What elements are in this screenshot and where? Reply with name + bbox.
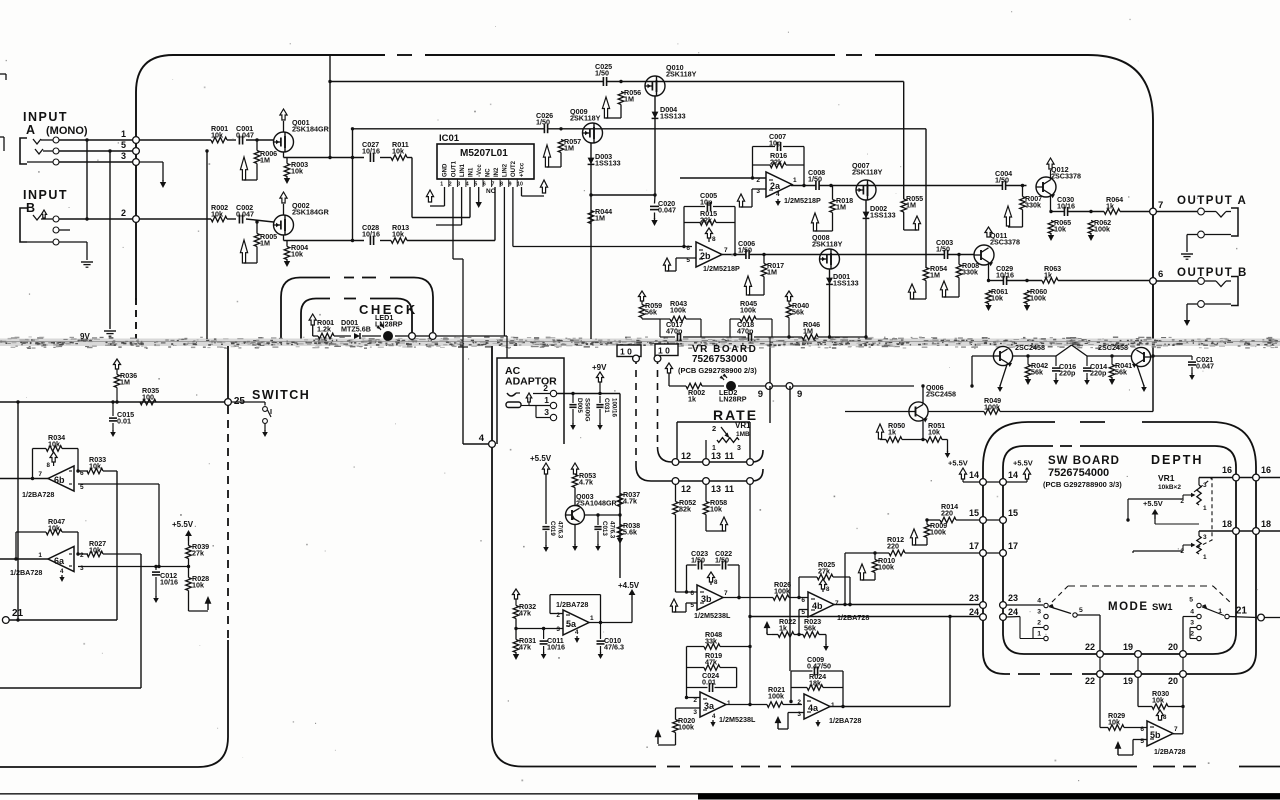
wire Q012 emitter to output line (1050, 194, 1052, 211)
wire depth pot upper wiring (1183, 494, 1188, 496)
power arrow IC01 pin1 (426, 190, 433, 202)
wire top board outline left edge dashed lower part (135, 298, 137, 339)
wire C026 rail drop to R054 (925, 129, 927, 268)
ground C021 (1191, 373, 1193, 375)
wire input A sleeve to pin 3 (59, 161, 132, 163)
node pin 21 (1258, 614, 1265, 621)
wire Q006 collector riser (922, 386, 924, 404)
svg-text:15: 15 (1008, 508, 1018, 518)
wire 5a output (588, 622, 633, 624)
wire R059 bottom (641, 318, 643, 320)
svg-text:M5207L01: M5207L01 (460, 148, 508, 159)
arrow 3b pin8 bias (707, 572, 714, 582)
wire 3a output (726, 704, 767, 706)
svg-text:VR1: VR1 (735, 421, 751, 430)
ground R004 (286, 259, 288, 261)
svg-text:1/2BA728: 1/2BA728 (1154, 749, 1186, 756)
node pin 12 upper (672, 459, 679, 466)
capacitor C024 (708, 683, 710, 692)
wire R005 top to gate line (256, 222, 258, 234)
capacitor C011 (543, 629, 545, 640)
capacitor C015 (112, 402, 114, 416)
transistor Q009 (583, 123, 603, 143)
svg-text:100k: 100k (1094, 225, 1110, 234)
wire bottom page black bar (698, 794, 1280, 800)
resistor R022 (778, 632, 794, 638)
wire LED2 line (669, 385, 686, 387)
node pin 23 right (1000, 602, 1007, 609)
resistor R049 (984, 409, 1000, 415)
arrow return R020 solid (675, 733, 677, 746)
svg-text:16: 16 (1261, 465, 1271, 475)
diode D003 (588, 158, 595, 165)
node pin 15 right (1000, 517, 1007, 524)
resistor R013 (391, 238, 407, 244)
svg-text:220: 220 (941, 509, 953, 518)
svg-text:6: 6 (483, 181, 486, 187)
resistor R003 (284, 164, 290, 177)
wire Q001 source down (283, 152, 285, 158)
svg-text:1: 1 (121, 129, 126, 139)
node pin 14 left (980, 479, 987, 486)
svg-text:100k: 100k (670, 306, 686, 315)
svg-text:10/16: 10/16 (547, 643, 565, 652)
ground IC01 pin5 (478, 200, 480, 202)
wire pin19 drop (1137, 657, 1139, 670)
arrow R022 bias solid (764, 621, 771, 628)
wire AC adaptor box (497, 358, 564, 444)
svg-text:1/2BA728: 1/2BA728 (556, 600, 588, 609)
svg-text:IN1: IN1 (468, 167, 474, 177)
wire 4a pin3 return (788, 712, 804, 714)
node pin 15 left (980, 517, 987, 524)
node pin 11 lower (747, 478, 754, 485)
wire pair crossing peak (1056, 345, 1072, 356)
svg-text:17: 17 (969, 541, 979, 551)
resistor R042 (1025, 365, 1031, 378)
svg-text:6: 6 (686, 245, 690, 252)
ground C013 (597, 544, 599, 546)
diode D001 (826, 278, 833, 285)
svg-text:3: 3 (1203, 534, 1207, 541)
capacitor C002 (238, 215, 240, 224)
svg-text:1/50: 1/50 (536, 118, 550, 127)
svg-text:1 0: 1 0 (658, 346, 670, 356)
svg-text:5: 5 (474, 181, 477, 187)
arrow 6b pin8 bias (50, 452, 57, 462)
ground C014 (1086, 378, 1088, 380)
wire Q002 source down and right (283, 235, 285, 241)
svg-text:6b: 6b (54, 475, 65, 485)
svg-text:1/50: 1/50 (691, 556, 705, 565)
capacitor C017 box (660, 318, 670, 320)
jack output A (1156, 211, 1197, 213)
svg-text:0.047: 0.047 (236, 210, 254, 219)
wire R024 branch (791, 687, 807, 689)
wire SW1a contact 2 and 1 links (1033, 627, 1044, 629)
svg-text:100k: 100k (774, 587, 790, 596)
node pin 19 upper (1135, 651, 1142, 658)
transistor Q001 (274, 132, 294, 152)
node pin 9 right (786, 383, 793, 390)
node AC pin 3 (550, 414, 556, 420)
resistor R025 (817, 574, 833, 580)
transistor Q008 (820, 249, 840, 269)
wire pin17 line (845, 552, 889, 554)
svg-text:10k: 10k (991, 294, 1003, 303)
wire row337 to Q007 drop (772, 336, 802, 338)
arrow check bias (309, 314, 316, 325)
transistor Q two SC2458 right (1131, 347, 1150, 366)
wire input B tip to pin 2 (59, 218, 132, 220)
resistor R015 (700, 220, 716, 226)
wire 6a pin3 line (78, 566, 189, 568)
svg-text:(MONO): (MONO) (46, 125, 88, 137)
svg-text:INPUT: INPUT (23, 110, 68, 124)
arrow return R010 (874, 573, 876, 581)
wire pin21 line (9, 619, 117, 621)
svg-text:5: 5 (1079, 607, 1083, 614)
ground input B sleeve (81, 261, 93, 263)
svg-text:NC: NC (486, 188, 496, 195)
svg-text:2: 2 (80, 552, 84, 559)
wire SW1b to pin21 (1229, 617, 1257, 618)
capacitor C004 (1001, 181, 1003, 190)
svg-text:MODE: MODE (1108, 601, 1149, 613)
svg-text:1k: 1k (1044, 271, 1052, 280)
resistor R027 (87, 551, 103, 557)
node pin 1 (133, 137, 140, 144)
capacitor C019 (542, 526, 549, 528)
arrow return R009 (926, 538, 928, 546)
svg-text:1SS133: 1SS133 (833, 279, 859, 288)
arrow return R056 (620, 105, 622, 119)
resistor R039 (186, 546, 192, 559)
svg-text:10k: 10k (89, 546, 101, 555)
arrow return R006 (256, 164, 258, 181)
resistor R063 (1042, 278, 1058, 284)
capacitor C001 (238, 136, 240, 145)
resistor R033 (87, 468, 103, 474)
jack AC adaptor plug (507, 393, 516, 396)
svg-text:(PCB G292788900 2/3): (PCB G292788900 2/3) (678, 366, 757, 375)
svg-text:IN2: IN2 (494, 167, 500, 177)
ground C016 (1055, 378, 1057, 380)
transistor Q007 (856, 180, 876, 200)
wire IC01 pin1 GND return (444, 187, 446, 206)
resistor R035 (140, 399, 156, 405)
ground C020 (654, 218, 656, 220)
wire 2a inverting input line (680, 177, 766, 179)
svg-text:100k: 100k (678, 723, 694, 732)
svg-text:7: 7 (1158, 200, 1163, 211)
node check connector outer (429, 333, 436, 340)
wire vertical from switch line (17, 402, 19, 620)
svg-text:11: 11 (724, 484, 734, 494)
svg-text:100k: 100k (984, 403, 1000, 412)
wire Q003 base line to C013 (597, 515, 599, 528)
svg-text:1/50: 1/50 (595, 69, 609, 78)
wire 2a output line (791, 185, 816, 187)
svg-text:4: 4 (776, 191, 780, 198)
resistor R029 (1108, 725, 1124, 731)
svg-text:2SK184GR: 2SK184GR (292, 208, 330, 217)
ground 3a pin4 (712, 720, 714, 722)
svg-text:22k: 22k (700, 216, 712, 225)
svg-text:+5.5V: +5.5V (948, 459, 968, 468)
svg-text:+9V: +9V (592, 363, 607, 372)
resistor R064 (1104, 209, 1120, 215)
wire R040 bottom (788, 318, 790, 338)
capacitor C017 symbol (677, 333, 679, 341)
svg-text:8: 8 (1163, 714, 1167, 721)
svg-text:DEPTH: DEPTH (1151, 453, 1203, 467)
wire R007 top (1022, 186, 1024, 197)
ground R003 (286, 176, 288, 178)
svg-text:2SK184GR: 2SK184GR (292, 125, 330, 134)
op-amp U3b (697, 585, 723, 610)
resistor R056 (618, 92, 624, 105)
node pin 6 (1150, 278, 1157, 285)
wire depth pot lower wiring (1183, 544, 1188, 546)
svg-text:+4.5V: +4.5V (618, 581, 640, 590)
svg-text:47/6.3: 47/6.3 (609, 521, 616, 539)
wire IC01 pin3 stub (461, 187, 463, 225)
wire R045 branch crossing tear (769, 337, 771, 348)
arrow R040 bias (785, 291, 792, 301)
svg-text:12: 12 (681, 451, 691, 461)
svg-text:7526754000: 7526754000 (1048, 467, 1109, 479)
svg-text:27k: 27k (192, 549, 204, 558)
resistor R023 (803, 632, 819, 638)
svg-text:4.7k: 4.7k (623, 497, 637, 506)
wire C026 line (353, 128, 545, 130)
node pin 20 lower (1180, 671, 1187, 678)
op-amp U2b (696, 242, 722, 267)
node pin 22 upper (1097, 651, 1104, 658)
svg-text:2: 2 (1037, 620, 1041, 627)
resistor R020 (673, 720, 679, 733)
ground R042 (1027, 377, 1029, 379)
node pin 23 left (980, 602, 987, 609)
wire R030 line (1138, 706, 1152, 708)
resistor R018 (830, 200, 836, 213)
svg-text:10p: 10p (700, 198, 713, 207)
wire OUT1 net crossing tear to pin 4 (462, 339, 464, 347)
svg-text:10kB×2: 10kB×2 (1158, 484, 1181, 491)
resistor R053 (572, 475, 578, 488)
node pin 3 (133, 159, 140, 166)
node pin 22 lower (1097, 671, 1104, 678)
svg-text:33k: 33k (705, 637, 717, 646)
wire CHECK outer enclosure (281, 278, 330, 341)
node connector 10 right (655, 344, 678, 356)
svg-text:47/6.3: 47/6.3 (604, 643, 624, 652)
resistor R001 (211, 137, 227, 143)
wire R039 bottom (188, 559, 190, 567)
wire vertical from top edge to Q001 source node (329, 55, 331, 158)
wire vertical linking C027 and C028 lines (352, 129, 354, 241)
svg-text:2SA1048GR: 2SA1048GR (576, 499, 618, 508)
svg-text:0.47/50: 0.47/50 (807, 662, 831, 671)
svg-text:10k: 10k (89, 462, 101, 471)
ground R060 (1026, 303, 1028, 305)
potentiometer VR1 depth lower (1197, 536, 1201, 554)
svg-text:13: 13 (711, 484, 721, 494)
svg-text:10/16: 10/16 (362, 147, 380, 156)
capacitor C006 (745, 250, 747, 259)
arrow return R007 (1022, 210, 1024, 228)
svg-text:1k: 1k (779, 624, 787, 633)
svg-text:INPUT: INPUT (23, 188, 68, 202)
svg-text:1M: 1M (260, 156, 270, 165)
svg-text:2: 2 (712, 424, 716, 433)
node pin 18 right (1253, 528, 1260, 535)
transistor Q002 (274, 215, 294, 235)
svg-text:4: 4 (479, 433, 485, 444)
op-amp IC01 body (437, 144, 534, 179)
power arrow IC01 pin10 (540, 180, 547, 193)
resistor R038 (617, 525, 623, 538)
svg-text:11: 11 (724, 451, 734, 461)
svg-text:3: 3 (457, 181, 460, 187)
svg-text:10: 10 (517, 181, 523, 187)
node pin 2 (133, 216, 140, 223)
svg-text:22: 22 (1085, 642, 1095, 652)
op-amp U4a (804, 694, 830, 719)
resistor R030 (1152, 704, 1168, 710)
svg-text:1 0: 1 0 (620, 347, 632, 357)
resistor R037 (617, 494, 623, 507)
wire R037 to R038 (619, 507, 621, 525)
wire right pair emitter (1137, 364, 1145, 386)
svg-text:12: 12 (681, 484, 691, 494)
wire Q010 source down through D004 (654, 96, 656, 195)
resistor R002 vr (686, 383, 702, 389)
svg-text:1/2BA728: 1/2BA728 (829, 716, 861, 725)
svg-text:10k: 10k (1152, 696, 1164, 705)
wire 6b pin6 through R033 (78, 470, 88, 472)
svg-text:2: 2 (1190, 631, 1194, 638)
svg-text:OUTPUT A: OUTPUT A (1177, 195, 1247, 207)
svg-text:3: 3 (121, 151, 126, 161)
wire right board edge continues below tear to R049 line (1152, 345, 1154, 412)
node pin 18 left (1233, 528, 1240, 535)
wire 4a feedback verticals (790, 671, 792, 702)
capacitor C020 (650, 205, 659, 207)
svg-text:3: 3 (544, 407, 549, 417)
wire Q002 drain to supply arrow (283, 204, 285, 215)
wire 6a output left (0, 558, 48, 560)
svg-text:1M: 1M (260, 239, 270, 248)
resistor R004 (284, 247, 290, 260)
resistor R047 (46, 529, 62, 535)
svg-text:MTZ5.6B: MTZ5.6B (341, 325, 371, 334)
svg-text:1/2BA728: 1/2BA728 (837, 613, 869, 622)
svg-text:2SC2458: 2SC2458 (926, 390, 956, 399)
svg-text:8: 8 (500, 181, 503, 187)
node pin 14 right (1000, 479, 1007, 486)
resistor R057 (558, 140, 564, 153)
svg-text:1/2BA728: 1/2BA728 (10, 568, 42, 577)
wire SW board outer outline (983, 422, 1055, 652)
wire IC01 pin5 -Vcc (478, 187, 480, 200)
svg-text:20: 20 (1168, 676, 1178, 686)
svg-text:1: 1 (1203, 505, 1207, 512)
resistor R007 (1020, 197, 1026, 210)
svg-text:2SC3378: 2SC3378 (990, 238, 1020, 247)
arrow 4b pin8 bias (819, 579, 826, 589)
op-amp U6b (48, 466, 74, 491)
svg-text:23: 23 (1008, 593, 1018, 603)
wire R004 top (286, 241, 288, 247)
wire right rail drop to R055 (903, 82, 905, 200)
svg-text:10k: 10k (710, 505, 722, 514)
capacitor C023 (697, 561, 699, 570)
wire R018 top (832, 186, 834, 200)
resistor R026 (773, 595, 789, 601)
wire C020 stub (654, 195, 657, 204)
node pin 13 upper (703, 459, 710, 466)
svg-text:56k: 56k (804, 624, 816, 633)
wire R019 C024 inner vertical (736, 647, 738, 668)
power arrow above Q011 (985, 227, 992, 237)
diode D002 (863, 212, 870, 219)
svg-text:100: 100 (142, 393, 154, 402)
svg-text:6: 6 (1158, 269, 1163, 280)
resistor R052 (673, 502, 679, 515)
svg-text:14: 14 (969, 470, 979, 480)
resistor R043 (670, 316, 686, 322)
wire 4a output to pin24 riser (829, 706, 950, 708)
svg-text:0.047: 0.047 (236, 131, 254, 140)
svg-text:16: 16 (1222, 465, 1232, 475)
resistor R059 (639, 305, 645, 318)
wire IC01 pin9 OUT2 to 2b (512, 187, 514, 247)
svg-text:100k: 100k (1030, 294, 1046, 303)
power arrow above Q012 (1047, 158, 1054, 169)
svg-text:24: 24 (1008, 607, 1018, 617)
capacitor C009 (813, 667, 815, 676)
resistor R010 (872, 560, 878, 573)
wire R028 top (188, 567, 190, 578)
resistor R045 (740, 316, 756, 322)
wire left edge artifact mid (0, 136, 4, 138)
svg-text:4: 4 (466, 181, 469, 187)
svg-text:1M: 1M (906, 201, 916, 210)
resistor R044 (588, 211, 594, 224)
svg-text:14: 14 (1008, 470, 1018, 480)
svg-text:1M: 1M (836, 203, 846, 212)
ground 2a pin4 (777, 199, 779, 201)
resistor R016 (770, 162, 786, 168)
svg-text:SS600G: SS600G (584, 398, 591, 422)
wire R033 to drop (103, 470, 117, 472)
wire 2b feedback loop (684, 206, 705, 208)
resistor R050 (886, 437, 902, 443)
svg-text:4: 4 (1037, 598, 1041, 605)
capacitor C028 (369, 236, 371, 245)
svg-text:10/16: 10/16 (160, 578, 178, 587)
svg-text:10k: 10k (392, 147, 404, 156)
resistor R046 (802, 334, 818, 340)
svg-text:3: 3 (737, 445, 741, 452)
svg-text:100k: 100k (740, 306, 756, 315)
svg-text:1SS133: 1SS133 (660, 112, 686, 121)
ground C019 (545, 545, 547, 547)
wire check led line (313, 335, 318, 337)
svg-text:19: 19 (1123, 642, 1133, 652)
